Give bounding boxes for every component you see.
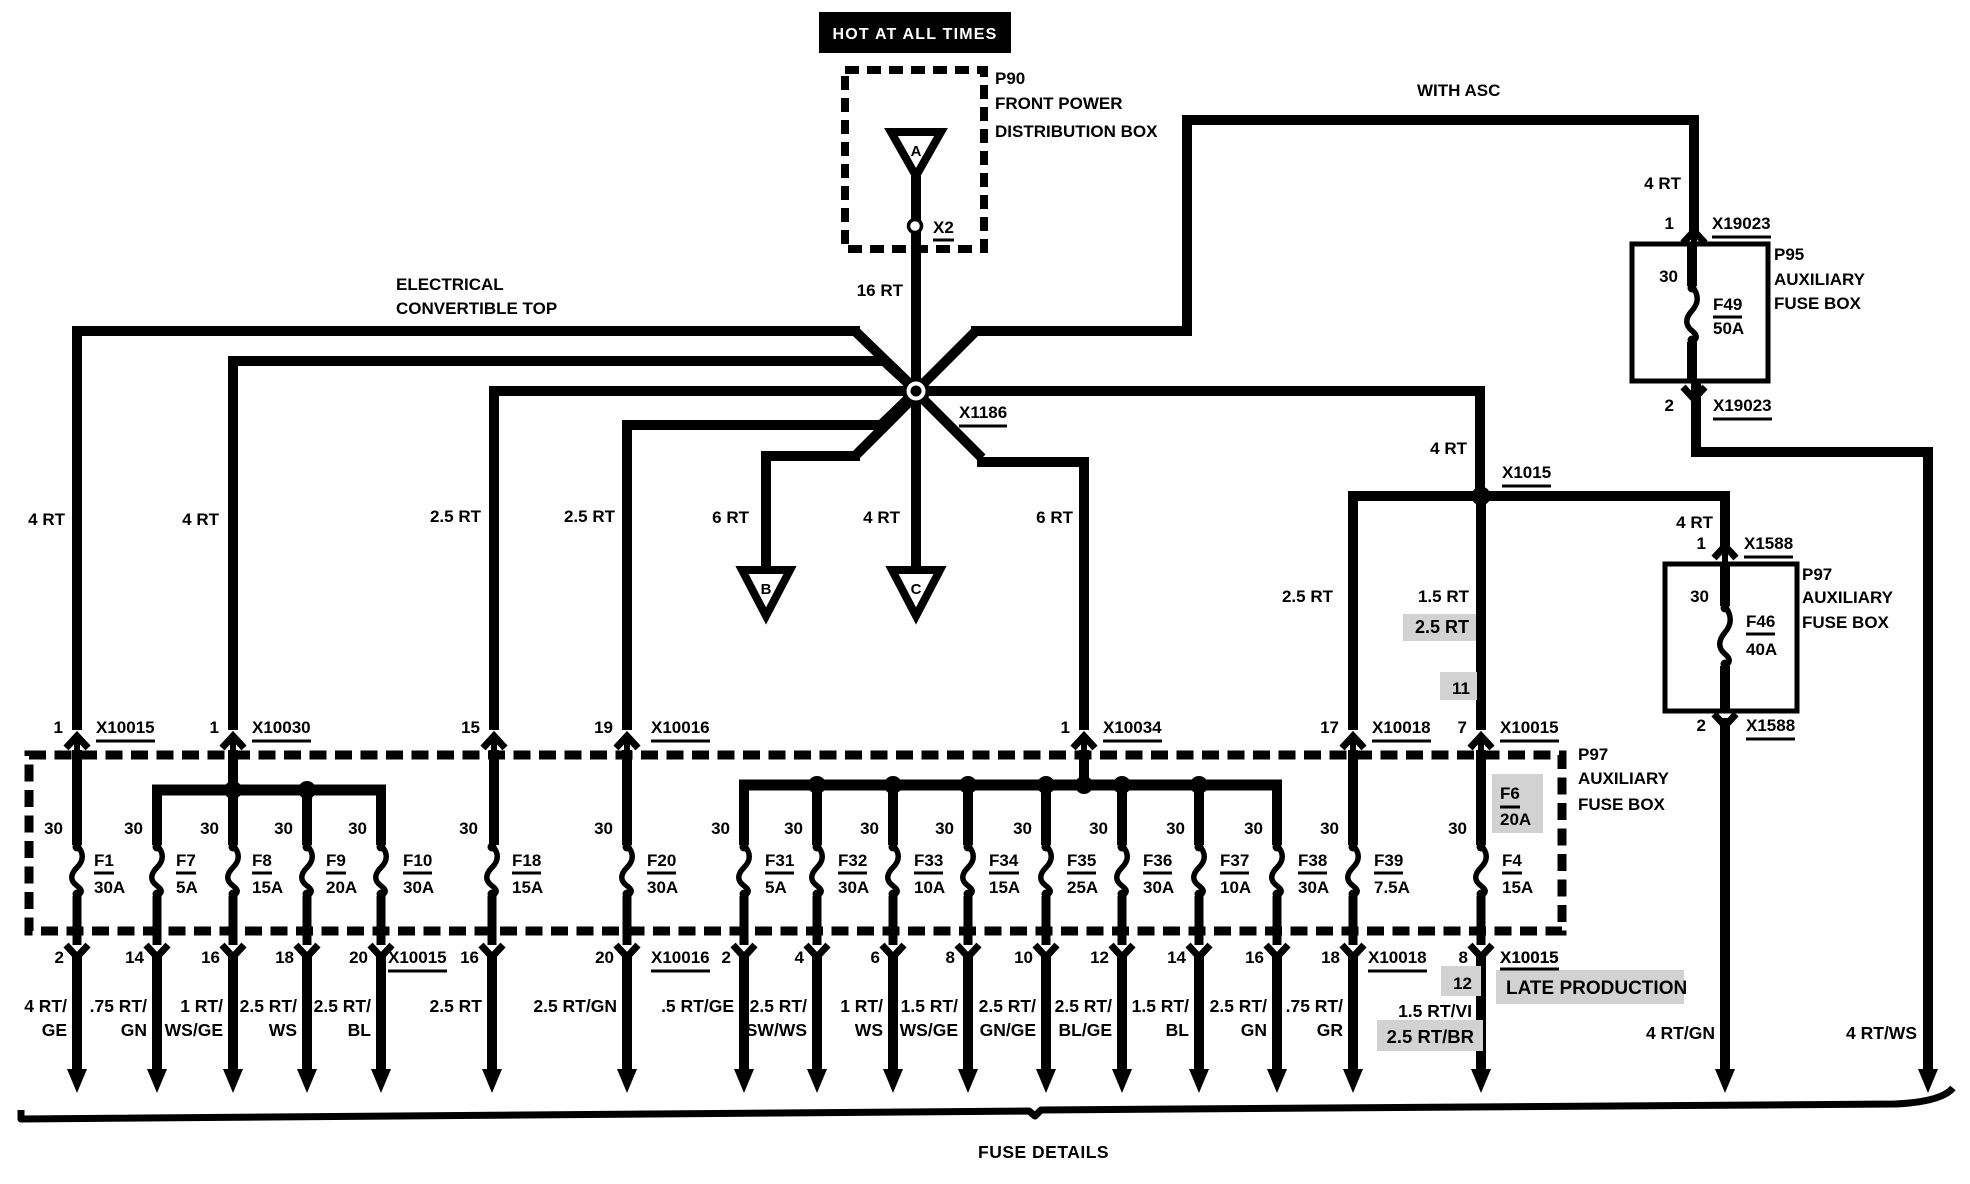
svg-text:40A: 40A bbox=[1746, 640, 1777, 659]
wire label 1 RT/WS bbox=[840, 996, 883, 1040]
arrowhead x=233 bbox=[223, 1069, 243, 1093]
chevron out of box pin 8 bbox=[957, 945, 979, 957]
svg-text:30: 30 bbox=[274, 819, 293, 838]
label F34 15A bbox=[989, 851, 1020, 897]
svg-text:1 RT/: 1 RT/ bbox=[840, 996, 883, 1016]
svg-text:GR: GR bbox=[1317, 1020, 1344, 1040]
label F49 50A bbox=[1713, 295, 1744, 338]
svg-text:4 RT: 4 RT bbox=[1676, 513, 1713, 532]
wire label 2.5 RT/GN bbox=[1210, 996, 1268, 1040]
connector label X10015 (bottom, x=1481) bbox=[1500, 948, 1559, 971]
chevron out of box pin 18 bbox=[1342, 945, 1364, 957]
chevron out of box pin 18 bbox=[296, 945, 318, 957]
svg-text:30: 30 bbox=[1089, 819, 1108, 838]
svg-text:2.5 RT: 2.5 RT bbox=[1282, 587, 1334, 606]
fuse F9 20A bbox=[302, 843, 313, 899]
label F36 30A bbox=[1143, 851, 1174, 897]
svg-text:X19023: X19023 bbox=[1712, 214, 1771, 233]
svg-text:X1588: X1588 bbox=[1746, 716, 1795, 735]
junction dot at F9 feed bbox=[298, 781, 316, 799]
svg-text:BL/GE: BL/GE bbox=[1059, 1020, 1112, 1040]
wire: output x=1122 down to arrow bbox=[1117, 952, 1127, 1072]
fuse F31 5A bbox=[739, 843, 750, 899]
svg-text:F38: F38 bbox=[1298, 851, 1327, 870]
svg-text:2.5 RT: 2.5 RT bbox=[430, 507, 482, 526]
wire: fuse output x=381 inside box to border bbox=[377, 896, 386, 945]
svg-text:F34: F34 bbox=[989, 851, 1019, 870]
fuse F37 10A bbox=[1194, 843, 1205, 899]
chevron out of box pin 6 bbox=[882, 945, 904, 957]
wire: fuse output x=492 inside box to border bbox=[488, 896, 497, 945]
wire: bus corner down to F10 bbox=[376, 785, 386, 845]
highlight 2.5 RT/BR (late production) bbox=[1377, 1020, 1483, 1051]
svg-text:4 RT: 4 RT bbox=[28, 510, 65, 529]
chevron into box pin 1 X10015 bbox=[66, 736, 88, 760]
svg-text:30: 30 bbox=[860, 819, 879, 838]
label F32 30A bbox=[838, 851, 869, 897]
svg-text:BL: BL bbox=[1166, 1020, 1190, 1040]
junction dot at F8 feed bbox=[224, 781, 242, 799]
svg-text:1.5 RT/: 1.5 RT/ bbox=[1132, 996, 1190, 1016]
svg-text:1.5 RT/VI: 1.5 RT/VI bbox=[1398, 1001, 1472, 1021]
wire: output x=627 down to arrow bbox=[622, 952, 632, 1072]
svg-text:HOT AT ALL TIMES: HOT AT ALL TIMES bbox=[833, 26, 998, 43]
svg-text:18: 18 bbox=[1321, 948, 1340, 967]
fuse F1 30A bbox=[72, 843, 83, 899]
svg-text:18: 18 bbox=[275, 948, 294, 967]
svg-text:4: 4 bbox=[795, 948, 805, 967]
svg-text:X10015: X10015 bbox=[96, 718, 155, 737]
label F33 10A bbox=[914, 851, 945, 897]
label F31 5A bbox=[765, 851, 794, 897]
svg-text:20A: 20A bbox=[1500, 810, 1531, 829]
svg-text:F33: F33 bbox=[914, 851, 943, 870]
wire: output x=1277 down to arrow bbox=[1272, 952, 1282, 1072]
svg-text:30: 30 bbox=[1659, 267, 1678, 286]
triangle A (supply arrow inside P90) bbox=[891, 132, 941, 176]
wire: bus corner down to F38 bbox=[1272, 780, 1282, 845]
fuse F4 15A bbox=[1476, 843, 1487, 899]
wire: fuse output x=307 inside box to border bbox=[303, 896, 312, 945]
label F38 30A bbox=[1298, 851, 1329, 897]
svg-text:2.5 RT/: 2.5 RT/ bbox=[1055, 996, 1113, 1016]
svg-text:F46: F46 bbox=[1746, 612, 1775, 631]
node X1186 junction bbox=[902, 377, 930, 405]
svg-text:16: 16 bbox=[201, 948, 220, 967]
chevron into box pin 17 X10018 bbox=[1342, 736, 1364, 760]
wire: output x=233 down to arrow bbox=[228, 952, 238, 1072]
wire: fuse output x=1046 inside box to border bbox=[1042, 896, 1051, 945]
svg-text:4 RT: 4 RT bbox=[182, 510, 219, 529]
svg-text:10A: 10A bbox=[914, 878, 945, 897]
label F9 20A bbox=[326, 851, 357, 897]
fuse F32 30A bbox=[812, 843, 823, 899]
svg-text:30A: 30A bbox=[403, 878, 434, 897]
fuse F8 15A bbox=[228, 843, 239, 899]
wire: left horizontal 3 to pin 15 drop bbox=[489, 386, 916, 396]
wire: drop to junction X1015 bbox=[1475, 391, 1485, 496]
svg-text:4 RT: 4 RT bbox=[1430, 439, 1467, 458]
connector label X10034 (top, x=1084) bbox=[1103, 718, 1162, 741]
fuse F18 15A bbox=[487, 843, 498, 899]
wire: top-left horizontal 4 RT bbox=[72, 326, 860, 336]
svg-text:LATE PRODUCTION: LATE PRODUCTION bbox=[1506, 978, 1687, 999]
svg-text:.75 RT/: .75 RT/ bbox=[1286, 996, 1344, 1016]
svg-text:AUXILIARY: AUXILIARY bbox=[1802, 588, 1894, 607]
svg-text:X2: X2 bbox=[933, 218, 954, 237]
svg-text:2.5 RT/: 2.5 RT/ bbox=[1210, 996, 1268, 1016]
wire: bus corner down to F31 bbox=[739, 780, 749, 845]
label junction X1015 bbox=[1502, 463, 1551, 486]
arrowhead x=893 bbox=[883, 1069, 903, 1093]
svg-text:30: 30 bbox=[1244, 819, 1263, 838]
arrowhead x=307 bbox=[297, 1069, 317, 1093]
arrowhead x=744 bbox=[734, 1069, 754, 1093]
wire: drop to pin 17 X10018 (2.5 RT) bbox=[1348, 491, 1358, 730]
svg-text:F7: F7 bbox=[176, 851, 196, 870]
svg-text:X10018: X10018 bbox=[1368, 948, 1427, 967]
wire: horizontal to X10034 drop (6 RT) bbox=[977, 457, 1089, 467]
svg-text:10: 10 bbox=[1014, 948, 1033, 967]
svg-text:4 RT: 4 RT bbox=[863, 508, 900, 527]
wire: node down to triangle C (4 RT) bbox=[911, 391, 921, 570]
label F8 15A bbox=[252, 851, 283, 897]
wire: fuse output x=1199 inside box to border bbox=[1195, 896, 1204, 945]
svg-text:2.5 RT/: 2.5 RT/ bbox=[750, 996, 808, 1016]
svg-text:30: 30 bbox=[1690, 587, 1709, 606]
label P97 AUXILIARY FUSE BOX (main) bbox=[1578, 745, 1670, 814]
wire: F9 drop from bus bbox=[302, 790, 312, 845]
wire: F46 output down 4 RT/GN bbox=[1720, 718, 1730, 1072]
svg-text:15: 15 bbox=[461, 718, 480, 737]
wire: drop to pin 1 X1588 (4 RT) bbox=[1720, 491, 1730, 546]
connector label X10018 (top, x=1353) bbox=[1372, 718, 1431, 741]
connector label X10015 (bottom, x=381) bbox=[388, 948, 447, 971]
wire: fuse output x=627 inside box to border bbox=[623, 896, 632, 945]
auxiliary fuse box P97 (F46) outline bbox=[1665, 564, 1797, 711]
label ELECTRICAL CONVERTIBLE TOP bbox=[396, 275, 557, 318]
svg-text:2.5 RT/BR: 2.5 RT/BR bbox=[1387, 1026, 1474, 1047]
auxiliary fuse box P95 outline bbox=[1632, 244, 1768, 381]
chevron into P95 pin 1 bbox=[1683, 231, 1705, 246]
wire label 2.5 RT/BL bbox=[314, 996, 372, 1040]
wire: node diagonal left-2 bbox=[884, 361, 910, 385]
wire: bus drop to F37 bbox=[1194, 785, 1204, 845]
svg-text:30A: 30A bbox=[1143, 878, 1174, 897]
label connector X1588 (top) bbox=[1744, 534, 1793, 557]
wire: far-left drop to pin 1 X10015 (4 RT) bbox=[72, 326, 82, 730]
fuse F36 30A bbox=[1117, 843, 1128, 899]
connector label X10018 (bottom, x=1353) bbox=[1368, 948, 1427, 971]
wire: output x=1046 down to arrow bbox=[1041, 952, 1051, 1072]
connector label X10015 (top, x=1481) bbox=[1500, 718, 1559, 741]
label connector X19023 (bottom) bbox=[1713, 396, 1772, 419]
fuse F39 7.5A bbox=[1348, 843, 1359, 899]
wire: output x=77 down to arrow bbox=[72, 952, 82, 1072]
svg-text:12: 12 bbox=[1453, 974, 1472, 993]
wire: horizontal run to ASC riser bbox=[971, 326, 1192, 336]
wire label 2.5 RT/WS bbox=[240, 996, 298, 1040]
label F37 10A bbox=[1220, 851, 1251, 897]
svg-text:2.5 RT: 2.5 RT bbox=[564, 507, 616, 526]
connector label X10030 (top, x=233) bbox=[252, 718, 311, 741]
svg-text:30: 30 bbox=[200, 819, 219, 838]
svg-text:20: 20 bbox=[349, 948, 368, 967]
svg-text:16 RT: 16 RT bbox=[857, 281, 904, 300]
fuse F49 50A bbox=[1687, 246, 1698, 381]
svg-text:2.5 RT/GN: 2.5 RT/GN bbox=[533, 996, 617, 1016]
svg-text:WS: WS bbox=[269, 1020, 297, 1040]
chevron into F46 box pin 1 bbox=[1714, 546, 1736, 566]
svg-text:2: 2 bbox=[1665, 396, 1674, 415]
label P95 AUXILIARY FUSE BOX bbox=[1774, 245, 1866, 313]
wire: fuse output x=1353 inside box to border bbox=[1349, 896, 1358, 945]
svg-text:8: 8 bbox=[1459, 948, 1468, 967]
svg-text:14: 14 bbox=[1167, 948, 1186, 967]
svg-text:FUSE BOX: FUSE BOX bbox=[1578, 795, 1666, 814]
fuse F38 30A bbox=[1272, 843, 1283, 899]
svg-text:FRONT POWER: FRONT POWER bbox=[995, 94, 1123, 113]
arrowhead x=1353 bbox=[1343, 1069, 1363, 1093]
svg-text:1.5 RT: 1.5 RT bbox=[1418, 587, 1470, 606]
wire: X1015 down to pin 7 X10015 (1.5 RT) bbox=[1476, 496, 1486, 730]
svg-text:F35: F35 bbox=[1067, 851, 1096, 870]
svg-text:AUXILIARY: AUXILIARY bbox=[1774, 270, 1866, 289]
svg-text:4 RT/: 4 RT/ bbox=[24, 996, 67, 1016]
arrowhead x=492 bbox=[482, 1069, 502, 1093]
svg-text:1 RT/: 1 RT/ bbox=[180, 996, 223, 1016]
svg-text:X10018: X10018 bbox=[1372, 718, 1431, 737]
svg-text:DISTRIBUTION BOX: DISTRIBUTION BOX bbox=[995, 122, 1158, 141]
svg-text:30: 30 bbox=[124, 819, 143, 838]
svg-text:X10015: X10015 bbox=[1500, 718, 1559, 737]
svg-text:F49: F49 bbox=[1713, 295, 1742, 314]
wire: drop to pin 1 X10030 (4 RT) bbox=[228, 356, 238, 730]
svg-text:15A: 15A bbox=[252, 878, 283, 897]
svg-text:2.5 RT/: 2.5 RT/ bbox=[240, 996, 298, 1016]
label P97 AUXILIARY FUSE BOX (right) bbox=[1802, 565, 1894, 632]
highlight pin 12 (late production) bbox=[1441, 966, 1481, 996]
svg-text:WS/GE: WS/GE bbox=[900, 1020, 958, 1040]
chevron out of box pin 2 bbox=[733, 945, 755, 957]
svg-text:A: A bbox=[911, 143, 922, 160]
wire: output x=381 down to arrow bbox=[376, 952, 386, 1072]
wire: node X1186 diagonal up-right bbox=[918, 331, 976, 389]
wire: bus drop to F35 bbox=[1041, 785, 1051, 845]
svg-text:8: 8 bbox=[946, 948, 955, 967]
wire: ASC riser up at x=1187 bbox=[1182, 120, 1192, 336]
svg-text:30A: 30A bbox=[838, 878, 869, 897]
wire label .75 RT/GR bbox=[1286, 996, 1344, 1040]
svg-text:30: 30 bbox=[459, 819, 478, 838]
wire: left horizontal 4 to X10016 drop bbox=[622, 420, 885, 430]
svg-text:GE: GE bbox=[42, 1020, 67, 1040]
chevron out of box pin 12 bbox=[1111, 945, 1133, 957]
svg-text:30A: 30A bbox=[1298, 878, 1329, 897]
svg-text:20A: 20A bbox=[326, 878, 357, 897]
chevron out of box pin 16 bbox=[481, 945, 503, 957]
wire: across to far right drop bbox=[1691, 447, 1933, 457]
wire label 2.5 RT/GN/GE bbox=[979, 996, 1037, 1040]
svg-text:15A: 15A bbox=[989, 878, 1020, 897]
label F39 7.5A bbox=[1374, 851, 1410, 897]
svg-text:5A: 5A bbox=[765, 878, 787, 897]
svg-text:X10016: X10016 bbox=[651, 948, 710, 967]
wire: output x=1481 down to arrow bbox=[1476, 952, 1486, 1072]
svg-text:30: 30 bbox=[711, 819, 730, 838]
wire: output x=968 down to arrow bbox=[963, 952, 973, 1072]
svg-text:2.5 RT/: 2.5 RT/ bbox=[314, 996, 372, 1016]
wire: node diagonal down-left toward B bbox=[855, 397, 914, 456]
svg-text:19: 19 bbox=[594, 718, 613, 737]
chevron into box pin 1 X10034 bbox=[1073, 736, 1095, 760]
label F46 40A bbox=[1746, 612, 1777, 659]
svg-text:FUSE DETAILS: FUSE DETAILS bbox=[978, 1142, 1109, 1162]
svg-text:6: 6 bbox=[871, 948, 880, 967]
wire: fuse output x=1122 inside box to border bbox=[1118, 896, 1127, 945]
wire: bus drop to F33 bbox=[888, 785, 898, 845]
chevron out of box pin 10 bbox=[1035, 945, 1057, 957]
svg-text:2: 2 bbox=[55, 948, 64, 967]
wire: output x=817 down to arrow bbox=[812, 952, 822, 1072]
connector label X10015 re-draw (bottom right, above highlight) bbox=[1500, 948, 1559, 969]
junction dot at F37 bbox=[1190, 776, 1208, 794]
svg-text:30A: 30A bbox=[647, 878, 678, 897]
arrowhead x=157 bbox=[147, 1069, 167, 1093]
svg-text:C: C bbox=[911, 581, 922, 598]
label connector X1588 (bottom) bbox=[1746, 716, 1795, 739]
wire label .75 RT/GN bbox=[90, 996, 148, 1040]
svg-text:30: 30 bbox=[1320, 819, 1339, 838]
wire: F1 feed through box bbox=[72, 750, 82, 845]
highlight F6 20A (late production) bbox=[1492, 774, 1543, 833]
wire: output x=1353 down to arrow bbox=[1348, 952, 1358, 1072]
wire: P95 output down bbox=[1691, 381, 1701, 452]
wire: fuse output x=744 inside box to border bbox=[740, 896, 749, 945]
chevron into box pin 19 X10016 bbox=[616, 736, 638, 760]
wire label 2.5 RT/BL/GE bbox=[1055, 996, 1113, 1040]
svg-text:SW/WS: SW/WS bbox=[746, 1020, 807, 1040]
wire: node diagonal down-right toward X10034 bbox=[920, 396, 982, 458]
arrowhead x=817 bbox=[807, 1069, 827, 1093]
wire label 4 RT/GE bbox=[24, 996, 67, 1040]
highlight LATE PRODUCTION bbox=[1496, 970, 1684, 1004]
wire label 1 RT/WS/GE bbox=[165, 996, 223, 1040]
chevron out of box pin 20 bbox=[616, 945, 638, 957]
label X1186 bbox=[959, 403, 1007, 426]
connector label X10016 (top, x=627) bbox=[651, 718, 710, 741]
wire label 1.5 RT/BL bbox=[1132, 996, 1190, 1040]
wire label 2.5 RT/SW/WS bbox=[746, 996, 807, 1040]
fuse F7 5A bbox=[152, 843, 163, 899]
svg-text:F6: F6 bbox=[1500, 784, 1520, 803]
triangle C (to fuse details C) bbox=[892, 570, 940, 616]
svg-text:30: 30 bbox=[348, 819, 367, 838]
fuse F33 10A bbox=[888, 843, 899, 899]
wire: output x=492 down to arrow bbox=[487, 952, 497, 1072]
wire: node diagonal up-left (to X10015 pin 1) bbox=[855, 331, 913, 387]
label connector X19023 (top) bbox=[1712, 214, 1771, 237]
svg-text:15A: 15A bbox=[1502, 878, 1533, 897]
wire: fuse output x=1277 inside box to border bbox=[1273, 896, 1282, 945]
svg-text:F36: F36 bbox=[1143, 851, 1172, 870]
arrowhead x=968 bbox=[958, 1069, 978, 1093]
label F4 15A bbox=[1502, 851, 1533, 897]
svg-text:2.5 RT: 2.5 RT bbox=[1415, 617, 1469, 637]
svg-text:X1186: X1186 bbox=[959, 403, 1007, 422]
svg-text:GN/GE: GN/GE bbox=[980, 1020, 1036, 1040]
arrowhead 4 RT/WS wire bbox=[1918, 1069, 1938, 1093]
wire: horizontal to B drop (6 RT) bbox=[766, 451, 860, 461]
chevron into box pin 1 X10030 bbox=[222, 736, 244, 760]
svg-text:F31: F31 bbox=[765, 851, 794, 870]
svg-text:F18: F18 bbox=[512, 851, 541, 870]
wire: left horizontal 2 to X10030 drop bbox=[228, 356, 888, 366]
arrowhead x=381 bbox=[371, 1069, 391, 1093]
wire: drop to pin 15 (2.5 RT) bbox=[489, 386, 499, 730]
svg-text:30: 30 bbox=[44, 819, 63, 838]
wire: X10034 feed into bus bbox=[1079, 750, 1089, 785]
wire: drop to P95 fuse box bbox=[1689, 115, 1699, 233]
svg-text:P90: P90 bbox=[995, 69, 1025, 88]
chevron out of P95 pin 2 bbox=[1683, 387, 1705, 399]
arrowhead x=1481 bbox=[1471, 1069, 1491, 1093]
wire: fuse output x=77 inside box to border bbox=[73, 896, 82, 945]
label X2 bbox=[933, 218, 954, 240]
wire: far right drop 4 RT/WS bbox=[1923, 447, 1933, 1072]
svg-text:1: 1 bbox=[210, 718, 219, 737]
wire: drop to triangle B bbox=[761, 451, 771, 570]
chevron out of F46 pin 2 bbox=[1714, 714, 1736, 726]
junction dot at F33 bbox=[884, 776, 902, 794]
svg-text:F39: F39 bbox=[1374, 851, 1403, 870]
chevron out of box pin 4 bbox=[806, 945, 828, 957]
svg-text:AUXILIARY: AUXILIARY bbox=[1578, 769, 1670, 788]
wire: X1015 right branch to X1588 bbox=[1481, 491, 1725, 501]
svg-text:16: 16 bbox=[460, 948, 479, 967]
svg-text:12: 12 bbox=[1090, 948, 1109, 967]
wire: triangle A down to node X1186 (16 RT feed) bbox=[911, 176, 921, 391]
label F35 25A bbox=[1067, 851, 1098, 897]
svg-text:4 RT/WS: 4 RT/WS bbox=[1846, 1023, 1917, 1043]
svg-text:WS/GE: WS/GE bbox=[165, 1020, 223, 1040]
arrowhead x=1046 bbox=[1036, 1069, 1056, 1093]
connector label X10015 (top, x=77) bbox=[96, 718, 155, 741]
svg-text:F1: F1 bbox=[94, 851, 114, 870]
chevron out of box pin 8 bbox=[1470, 945, 1492, 957]
wire: F18 feed through box bbox=[489, 750, 499, 845]
svg-text:30: 30 bbox=[935, 819, 954, 838]
chevron out of box pin 14 bbox=[146, 945, 168, 957]
wire: node diagonal left-4 bbox=[881, 397, 910, 425]
svg-text:1: 1 bbox=[1697, 534, 1706, 553]
bus: F7-F10 internal strip bbox=[152, 785, 386, 796]
svg-text:F4: F4 bbox=[1502, 851, 1522, 870]
wire: output x=307 down to arrow bbox=[302, 952, 312, 1072]
svg-text:1: 1 bbox=[54, 718, 63, 737]
svg-text:30: 30 bbox=[1448, 819, 1467, 838]
junction dot at F35 bbox=[1037, 776, 1055, 794]
svg-text:16: 16 bbox=[1245, 948, 1264, 967]
junction dot at F32 bbox=[808, 776, 826, 794]
svg-text:X10016: X10016 bbox=[651, 718, 710, 737]
connector label X10016 (bottom, x=627) bbox=[651, 948, 710, 971]
arrowhead x=627 bbox=[617, 1069, 637, 1093]
wire: drop to pin 1 X10034 bbox=[1079, 457, 1089, 730]
wire: fuse output x=157 inside box to border bbox=[153, 896, 162, 945]
label F1 30A bbox=[94, 851, 125, 897]
fuse F10 30A bbox=[376, 843, 387, 899]
